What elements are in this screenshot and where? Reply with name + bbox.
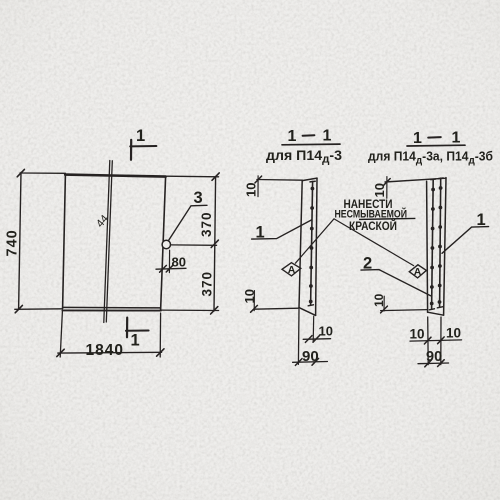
svg-text:370: 370	[200, 271, 215, 297]
svg-text:90: 90	[426, 349, 442, 365]
svg-text:10: 10	[242, 289, 257, 303]
svg-text:1: 1	[477, 211, 486, 229]
svg-text:740: 740	[5, 229, 21, 256]
svg-text:КРАСКОЙ: КРАСКОЙ	[349, 218, 397, 233]
svg-text:10: 10	[372, 293, 386, 307]
svg-text:1: 1	[413, 130, 422, 147]
svg-text:90: 90	[302, 348, 319, 365]
svg-text:10: 10	[372, 183, 387, 197]
svg-text:1: 1	[323, 128, 332, 145]
svg-text:10: 10	[410, 327, 425, 342]
svg-text:80: 80	[172, 255, 186, 270]
svg-text:10: 10	[446, 326, 461, 341]
svg-text:А: А	[288, 264, 296, 276]
svg-text:1: 1	[452, 130, 461, 147]
svg-text:10: 10	[319, 324, 333, 339]
svg-text:А: А	[414, 266, 422, 278]
svg-text:10: 10	[244, 183, 259, 197]
svg-text:1: 1	[256, 224, 265, 242]
svg-text:3: 3	[194, 189, 203, 207]
svg-text:1: 1	[131, 332, 140, 350]
svg-text:1840: 1840	[86, 342, 124, 359]
svg-text:1: 1	[288, 128, 297, 145]
svg-text:для П14д-3: для П14д-3	[266, 148, 343, 166]
svg-text:370: 370	[199, 211, 214, 237]
svg-text:1: 1	[136, 127, 145, 145]
svg-text:2: 2	[363, 255, 372, 273]
